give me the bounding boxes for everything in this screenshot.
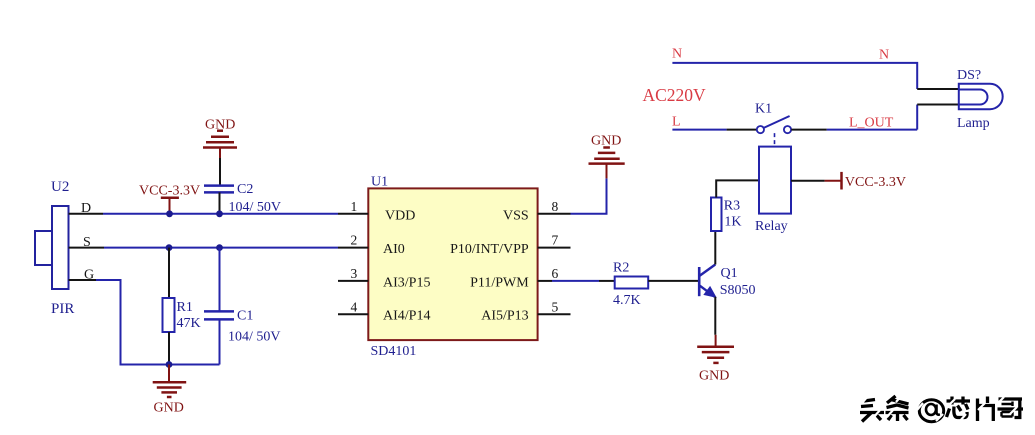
- svg-text:DS?: DS?: [957, 68, 981, 83]
- svg-text:D: D: [81, 201, 91, 216]
- svg-text:GND: GND: [154, 401, 184, 416]
- svg-text:N: N: [672, 47, 682, 62]
- svg-text:L_OUT: L_OUT: [849, 116, 894, 131]
- svg-text:L: L: [672, 115, 681, 130]
- relay K1 coil box: [759, 147, 791, 214]
- watermark 头条@芯片哥: [860, 396, 1023, 422]
- watermark white cuts: [862, 394, 1017, 421]
- svg-text:104/ 50V: 104/ 50V: [229, 200, 282, 215]
- wire C2 to D net: [219, 192, 221, 213]
- ground symbol above VSS (inverted): [589, 148, 625, 164]
- wire R1 to ground rail: [168, 332, 170, 365]
- svg-text:U1: U1: [371, 175, 388, 190]
- ground symbol bottom left: [153, 382, 187, 397]
- junction dot R1 on S wire: [166, 244, 173, 251]
- svg-text:C1: C1: [237, 309, 253, 324]
- wire switch to L_OUT: [791, 129, 917, 131]
- svg-text:1: 1: [351, 199, 358, 214]
- capacitor C1: [204, 311, 234, 319]
- junction dot ground rail: [166, 361, 173, 368]
- pin 3 stub: [338, 280, 368, 282]
- pin 5 stub: [538, 313, 571, 315]
- svg-text:8: 8: [552, 199, 559, 214]
- svg-text:2: 2: [351, 233, 358, 248]
- svg-text:GND: GND: [591, 134, 621, 149]
- pin 4 stub: [338, 313, 368, 315]
- svg-text:R1: R1: [177, 300, 193, 315]
- svg-text:N: N: [879, 48, 889, 63]
- wire S net: [104, 247, 338, 249]
- svg-text:SD4101: SD4101: [371, 344, 417, 359]
- svg-text:AI0: AI0: [383, 242, 405, 257]
- svg-text:4.7K: 4.7K: [613, 293, 641, 308]
- svg-text:AI5/P13: AI5/P13: [481, 309, 528, 324]
- svg-text:AC220V: AC220V: [643, 85, 707, 105]
- svg-text:3: 3: [351, 266, 358, 281]
- wire R3 top to relay left pin: [716, 180, 759, 197]
- ground symbol below Q1: [697, 347, 734, 363]
- pin S stub: [69, 247, 104, 249]
- wire collector up: [714, 231, 716, 265]
- wire stub ground VSS: [606, 164, 608, 179]
- PIR sensor U2 body: [35, 206, 69, 289]
- svg-text:AI3/P15: AI3/P15: [383, 275, 430, 290]
- switch K1 contacts: [757, 116, 791, 133]
- dashed link switch to relay: [774, 133, 776, 147]
- wire S to R1: [168, 248, 170, 298]
- svg-text:47K: 47K: [177, 316, 201, 331]
- svg-text:VDD: VDD: [385, 209, 415, 224]
- svg-text:7: 7: [552, 233, 559, 248]
- svg-text:AI4/P14: AI4/P14: [383, 309, 430, 324]
- svg-text:5: 5: [552, 299, 559, 314]
- wire L_OUT riser to lamp: [917, 105, 959, 130]
- svg-text:Lamp: Lamp: [957, 116, 990, 131]
- wire VSS to ground riser: [571, 178, 607, 213]
- svg-text:6: 6: [552, 266, 559, 281]
- wire N net: [672, 63, 917, 89]
- wire relay right pin: [791, 180, 825, 182]
- capacitor C2: [204, 186, 234, 193]
- svg-text:K1: K1: [755, 102, 772, 117]
- wire L to switch: [672, 129, 756, 131]
- svg-text:C2: C2: [237, 182, 253, 197]
- svg-text:P10/INT/VPP: P10/INT/VPP: [450, 242, 529, 257]
- wire pin6 to R2: [552, 280, 615, 282]
- wire emitter down: [714, 297, 716, 335]
- svg-text:R3: R3: [724, 199, 740, 214]
- junction dot C2 on D wire: [216, 210, 223, 217]
- svg-text:4: 4: [351, 299, 358, 314]
- wire G to ground rail: [96, 280, 220, 365]
- svg-text:S: S: [83, 235, 91, 250]
- VCC-3.3V power symbol right: [840, 172, 843, 190]
- svg-text:G: G: [84, 268, 94, 283]
- VCC-3.3V power symbol left: [161, 198, 179, 214]
- wire rail to GND symbol: [168, 365, 170, 383]
- wire stub ground Q1: [715, 335, 717, 347]
- pin 8 stub: [538, 213, 571, 215]
- IC U1 body SD4101: [368, 188, 537, 340]
- svg-text:R2: R2: [613, 261, 629, 276]
- wire S to C1: [219, 248, 221, 312]
- svg-text:P11/PWM: P11/PWM: [470, 275, 529, 290]
- pin 2 stub: [338, 247, 368, 249]
- watermark @ glyph: [919, 400, 943, 422]
- resistor R3: [711, 198, 722, 232]
- svg-text:VSS: VSS: [503, 209, 529, 224]
- wire stub VCC right: [825, 180, 842, 182]
- pin G stub: [69, 279, 96, 281]
- svg-text:1K: 1K: [724, 215, 741, 230]
- lamp DS? symbol: [959, 84, 1003, 109]
- wire C1 to ground rail: [219, 319, 221, 364]
- svg-text:VCC-3.3V: VCC-3.3V: [845, 175, 906, 190]
- wire R2 to Q1 base: [648, 280, 699, 282]
- svg-text:PIR: PIR: [51, 301, 74, 317]
- svg-text:S8050: S8050: [720, 283, 756, 298]
- wire D net: [103, 213, 338, 215]
- svg-text:104/ 50V: 104/ 50V: [228, 330, 281, 345]
- transistor Q1: [699, 265, 715, 297]
- ground symbol above C2 (inverted): [203, 131, 237, 158]
- resistor R2: [615, 277, 649, 289]
- junction dot VCC on D wire: [166, 210, 173, 217]
- wire GND to C2: [219, 158, 221, 186]
- svg-text:Relay: Relay: [755, 219, 788, 234]
- wire N to lamp: [917, 88, 959, 90]
- svg-text:VCC-3.3V: VCC-3.3V: [139, 184, 200, 199]
- svg-text:GND: GND: [699, 369, 729, 384]
- svg-text:Q1: Q1: [721, 266, 738, 281]
- pin D stub: [69, 213, 103, 215]
- pin 6 stub: [538, 280, 552, 282]
- svg-text:U2: U2: [51, 179, 69, 195]
- pin 7 stub: [538, 247, 571, 249]
- junction dot C1 on S wire: [216, 244, 223, 251]
- resistor R1: [163, 298, 175, 332]
- pin 1 stub: [338, 213, 368, 215]
